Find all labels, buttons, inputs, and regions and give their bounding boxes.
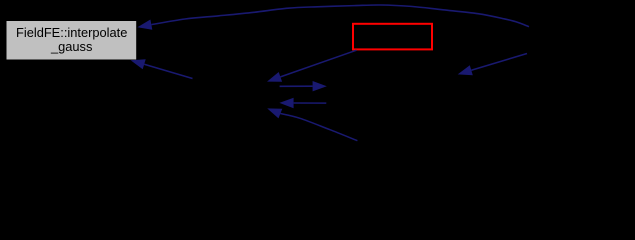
svg-text:_gauss: _gauss: [50, 39, 92, 54]
svg-text:FieldFE::interpolate: FieldFE::interpolate: [16, 25, 127, 40]
